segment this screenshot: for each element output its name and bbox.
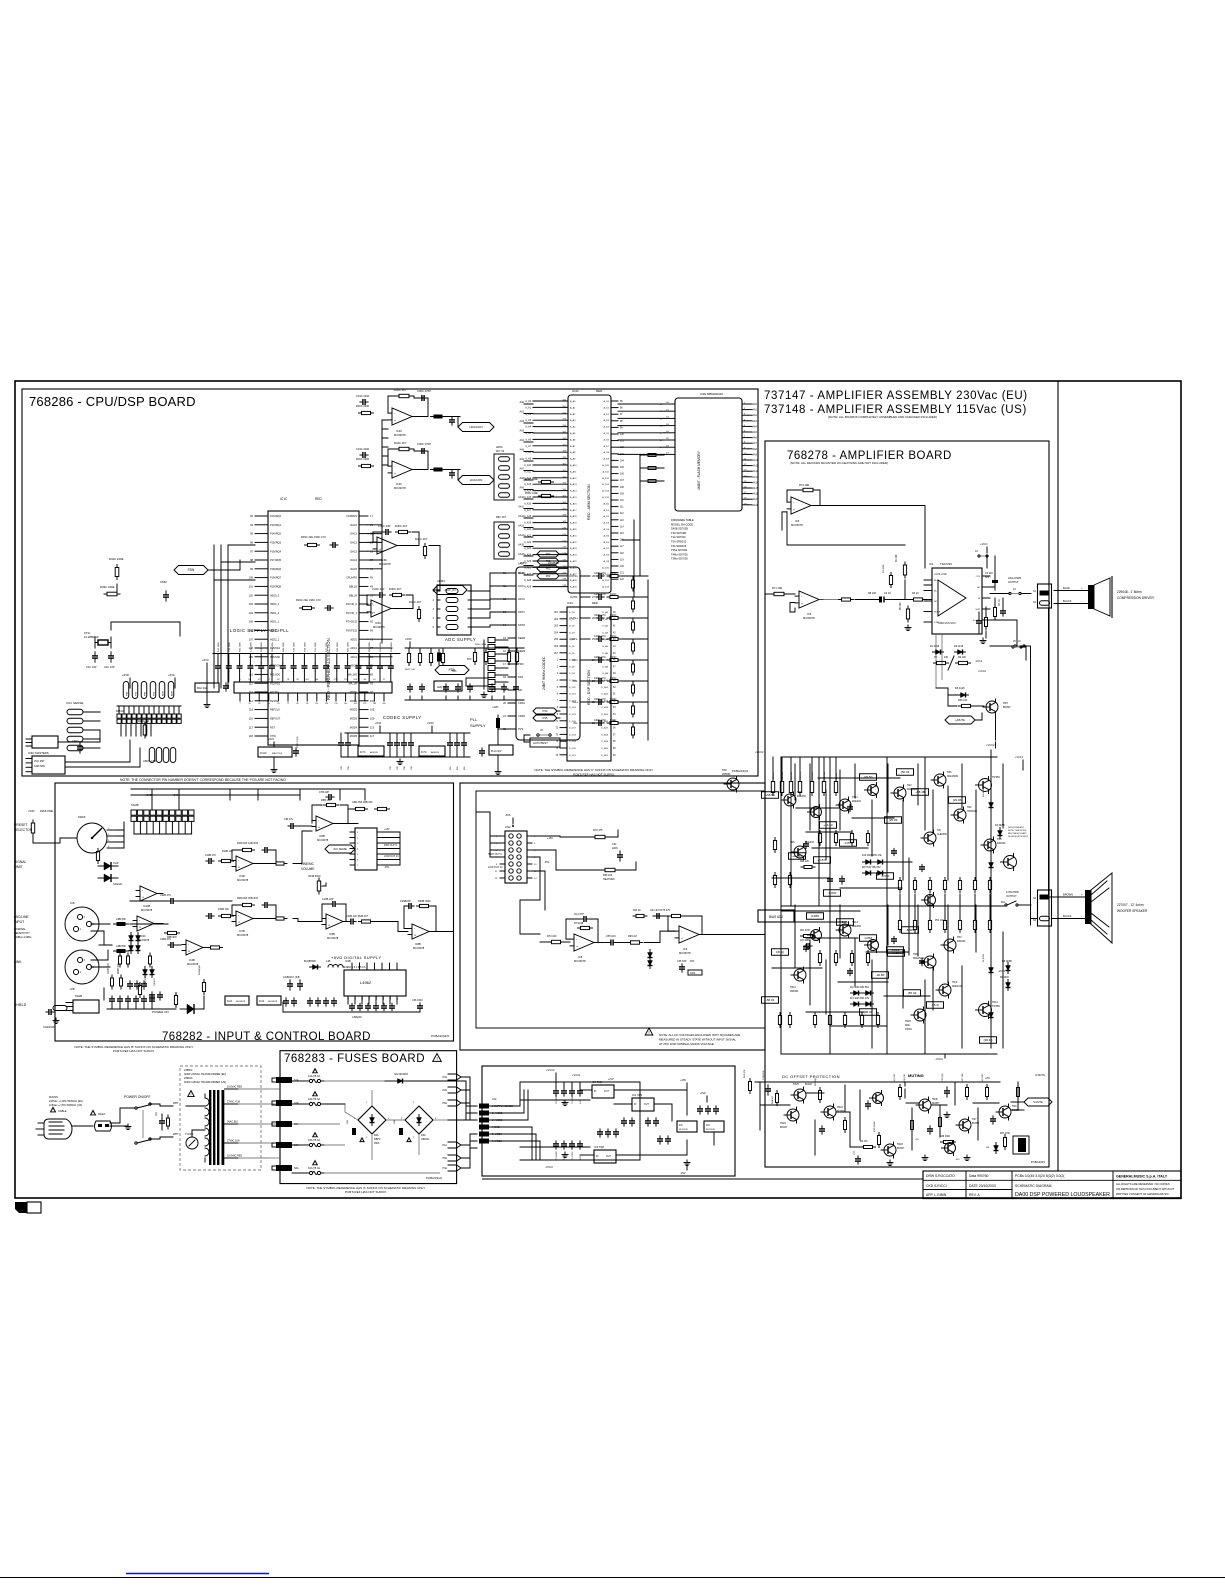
svg-text:MC33078: MC33078 [706, 1129, 716, 1131]
svg-text:MC33078: MC33078 [394, 433, 406, 437]
svg-text:PD6C 100E: PD6C 100E [525, 478, 538, 481]
transistor TR3 D34943 low [944, 939, 956, 951]
capacitor DACH1 output [449, 419, 455, 421]
svg-text:116: 116 [249, 717, 254, 721]
svg-text:-58.93: -58.93 [766, 998, 775, 1002]
codec supply caps [338, 742, 344, 744]
svg-text:VCC SENSE: VCC SENSE [333, 848, 347, 851]
svg-text:P15/IRQ3: P15/IRQ3 [270, 542, 282, 545]
svg-text:D_D18: D_D18 [569, 734, 577, 736]
svg-text:D_D21: D_D21 [569, 755, 577, 757]
flash control wires [640, 454, 664, 456]
svg-text:R49C 330E: R49C 330E [100, 585, 115, 589]
svg-text:A_A17: A_A17 [524, 509, 532, 512]
svg-text:C8.5(): C8.5() [776, 950, 784, 954]
svg-text:A_A23: A_A23 [524, 547, 532, 550]
DSP section IC3E [567, 607, 611, 761]
svg-text:768282 - INPUT & CONTROL: 768282 - INPUT & CONTROL BOARD [162, 1031, 371, 1043]
svg-text:P5A: P5A [442, 1157, 447, 1160]
svg-text:APP. L.GIBIN: APP. L.GIBIN [926, 1193, 947, 1197]
supply extra wires [520, 1099, 590, 1101]
svg-text:MAC R(2: MAC R(2 [197, 687, 207, 690]
svg-text:R5B 10K: R5B 10K [321, 799, 331, 802]
port tag pills under header [149, 748, 155, 763]
svg-text:P18/IRQ6: P18/IRQ6 [270, 568, 282, 571]
svg-text:MUST BE AT LEAST: MUST BE AT LEAST [1008, 832, 1027, 835]
svg-text:IC8B: IC8B [415, 942, 421, 946]
svg-text:MJE15031: MJE15031 [913, 957, 925, 960]
svg-text:TR2: TR2 [967, 806, 972, 809]
wires cn2 left to box edge [476, 812, 500, 836]
output stage vertical wire mesh [794, 764, 796, 800]
wires codec outputs to dac filters [622, 500, 640, 576]
transistor TR5 BC807 [986, 701, 998, 713]
dc offset extra caps [819, 1128, 825, 1130]
transistor TR19 MJE15030 low2 [939, 984, 951, 996]
svg-text:C40 100N: C40 100N [337, 642, 339, 652]
svg-text:D34943: D34943 [997, 842, 1006, 845]
svg-text:R66 1M: R66 1M [628, 935, 637, 938]
svg-text:D_D1: D_D1 [569, 619, 575, 621]
svg-text:C9 6800U: C9 6800U [556, 1150, 558, 1160]
svg-text:+5VA: +5VA [168, 673, 175, 677]
svg-text:A_A6: A_A6 [525, 438, 531, 441]
svg-text:-0.870: -0.870 [844, 841, 853, 845]
wire ADC2 loop [367, 595, 376, 605]
svg-text:AA0: AA0 [753, 403, 758, 406]
op-amp IC6B [316, 816, 333, 831]
flash right pins [742, 403, 748, 405]
svg-text:+5VD: +5VD [122, 673, 129, 677]
supply section box [482, 1066, 735, 1176]
svg-text:C29 100N: C29 100N [294, 642, 296, 652]
svg-text:R44 100N: R44 100N [283, 642, 285, 652]
svg-text:DBPC: DBPC [374, 1138, 381, 1141]
svg-text:DAC1: DAC1 [350, 533, 357, 536]
svg-text:D9 4003: D9 4003 [1000, 977, 1009, 979]
svg-text:P17/IRQ5: P17/IRQ5 [270, 559, 282, 562]
svg-text:C35 33P: C35 33P [677, 960, 687, 963]
fuse F3A [313, 1133, 318, 1137]
svg-text:NOTE: THE SYMBOL REFERENCE HAS: NOTE: THE SYMBOL REFERENCE HAS 'C' SUFFI… [534, 768, 653, 772]
svg-text:A_D4: A_D4 [604, 528, 610, 531]
svg-text:MJE340: MJE340 [852, 800, 861, 803]
svg-text:+VCC2: +VCC2 [986, 743, 995, 747]
svg-text:(NOTE: ALL BOARDS COMPLETELY A: (NOTE: ALL BOARDS COMPLETELY ASSEMBLED A… [828, 415, 937, 419]
svg-text:117: 117 [249, 725, 254, 729]
svg-text:PCBA3(0(3: PCBA3(0(3 [1031, 1160, 1046, 1164]
svg-text:GND=VC3=VCC: GND=VC3=VCC [938, 622, 956, 625]
svg-text:R6A 4(7: R6A 4(7 [771, 1095, 774, 1104]
svg-text:D_A1: D_A1 [603, 618, 609, 621]
svg-text:D_A17: D_A17 [601, 727, 608, 730]
svg-text:RST: RST [270, 726, 275, 729]
connector CN4B mid [355, 828, 377, 870]
svg-text:H0D2_1: H0D2_1 [270, 638, 280, 641]
svg-text:TR12: TR12 [790, 986, 797, 989]
svg-text:C28(000U: C28(000U [763, 1070, 765, 1080]
svg-text:C33C 100N: C33C 100N [297, 736, 299, 748]
svg-text:C56C: C56C [160, 580, 167, 584]
transistor TR4 MJE15030 [894, 787, 906, 799]
svg-text:AEM: AEM [162, 691, 165, 696]
svg-text:+: + [379, 548, 381, 552]
svg-text:ARMC: ARMC [437, 579, 445, 583]
svg-text:BLACK: BLACK [1063, 599, 1072, 603]
svg-text:A_A6: A_A6 [570, 438, 576, 441]
svg-text:+5V3: +5V3 [268, 738, 275, 741]
svg-text:A_A29: A_A29 [570, 586, 577, 589]
svg-text:A_A26: A_A26 [524, 566, 532, 569]
upper output transistor pair D34943 [984, 839, 996, 851]
svg-text:R41C 4K7: R41C 4K7 [409, 600, 422, 604]
svg-text:MOD2: MOD2 [350, 709, 358, 712]
svg-text:PCB'S REF HAS NOT SUFFIX.: PCB'S REF HAS NOT SUFFIX. [345, 1190, 387, 1194]
svg-text:AA10: AA10 [753, 459, 759, 462]
svg-text:A_A15: A_A15 [570, 496, 577, 499]
svg-text:T6A SRD033: T6A SRD033 [671, 544, 687, 548]
svg-text:DEM0: DEM0 [518, 636, 526, 640]
VCC sense pills [67, 709, 83, 715]
VCC SENSE tag input board [325, 845, 355, 853]
svg-text:TR6: TR6 [947, 771, 952, 774]
svg-text:H0D0_1: H0D0_1 [270, 603, 280, 606]
svg-text:A_A4: A_A4 [570, 426, 576, 429]
svg-text:PLLC R(2: PLLC R(2 [491, 750, 502, 753]
svg-text:AA14: AA14 [753, 481, 759, 484]
svg-text:+: + [394, 472, 396, 476]
op-amp IC1B [236, 856, 253, 871]
svg-text:10K: 10K [944, 656, 949, 659]
svg-text:C16B 22P: C16B 22P [322, 898, 334, 901]
svg-text:LINK: LINK [14, 960, 22, 964]
codec supply IC rects [358, 746, 384, 756]
svg-text:SW1B: SW1B [78, 815, 86, 819]
extra input chain parts [119, 956, 122, 964]
adc supply mid rects [434, 681, 462, 691]
PDN tag left of CPU [174, 566, 208, 575]
fuse board left contacts [276, 1077, 292, 1083]
svg-text:L3BF(5R: L3BF(5R [116, 918, 126, 921]
svg-text:NOTE: THE CONNECTOR PIN NUMBER: NOTE: THE CONNECTOR PIN NUMBER DOESN'T C… [120, 778, 286, 782]
svg-text:A_D15: A_D15 [602, 496, 609, 499]
data bus CPU to flash [618, 403, 664, 405]
svg-text:A_A19: A_A19 [570, 522, 577, 525]
svg-text:107: 107 [249, 637, 254, 641]
svg-text:B(A(B5WR: B(A(B5WR [304, 960, 316, 963]
port tag pills column [123, 682, 129, 699]
svg-text:HDACON: HDACON [469, 425, 482, 429]
svg-text:AA2: AA2 [753, 414, 758, 417]
bridge rectifier B1A [358, 1106, 386, 1134]
resistor R48 4K7 vert [773, 841, 776, 850]
transistor TR23 BC857 [824, 1106, 836, 1118]
flash memory IC2E [675, 398, 742, 511]
op-amp IC7B [236, 911, 253, 926]
XLR link output J2B [65, 950, 99, 984]
svg-text:A_A4: A_A4 [525, 426, 531, 429]
svg-text:105: 105 [370, 708, 375, 712]
wires reset to CPU [65, 740, 130, 762]
svg-text:737147 - AMPLIFIER ASSEMBLY: 737147 - AMPLIFIER ASSEMBLY 230Vac (EU) [764, 390, 1028, 402]
svg-text:AA15: AA15 [753, 487, 759, 490]
transistor TR8 MJE15031 low [924, 956, 936, 968]
svg-text:SDTO: SDTO [518, 623, 525, 627]
svg-text:D_A10: D_A10 [601, 679, 608, 682]
svg-text:D_D15: D_D15 [569, 714, 577, 716]
svg-text:CODEC SUPPLY: CODEC SUPPLY [383, 715, 422, 720]
svg-text:CN3B: CN3B [131, 803, 139, 807]
svg-text:D4A: D4A [421, 1134, 426, 1137]
svg-text:MC33078: MC33078 [237, 878, 249, 882]
svg-text:R6B 6K8: R6B 6K8 [167, 936, 177, 939]
svg-text:+5VA: +5VA [375, 721, 381, 725]
svg-text:CHASSIS: CHASSIS [43, 1025, 55, 1029]
svg-text:C17 100N: C17 100N [358, 642, 360, 652]
supply caps group1 [553, 1090, 559, 1092]
svg-text:C12 100N: C12 100N [250, 642, 252, 652]
mesh long vertical rails [818, 757, 820, 905]
svg-text:+: + [576, 945, 578, 949]
svg-text:R71 10E: R71 10E [772, 586, 782, 590]
svg-text:P54 100: P54 100 [935, 920, 944, 922]
svg-text:IC5: IC5 [795, 519, 800, 523]
svg-text:D_D2: D_D2 [569, 626, 575, 628]
svg-text:D_A4: D_A4 [603, 638, 609, 641]
svg-text:P01: P01 [546, 559, 551, 563]
svg-text:R1B 6K8 C1B 3N3: R1B 6K8 C1B 3N3 [237, 842, 258, 845]
emitter resistors mesh upper [898, 881, 901, 890]
resistor R16B 10K [222, 914, 231, 917]
svg-text:MC33078: MC33078 [237, 933, 249, 937]
svg-text:D_A20: D_A20 [601, 747, 608, 750]
svg-text:C34 100N: C34 100N [229, 642, 231, 652]
svg-text:NOMINAL: NOMINAL [14, 927, 26, 931]
svg-text:MC33078: MC33078 [394, 486, 406, 490]
svg-text:R(2 10K: R(2 10K [894, 1073, 896, 1082]
transistor ALE8030 [924, 832, 936, 844]
svg-text:LDACON: LDACON [470, 478, 483, 482]
small caps mesh [803, 843, 809, 845]
svg-text:A_A1: A_A1 [570, 406, 576, 409]
svg-text:LIMIT: LIMIT [14, 865, 23, 869]
svg-text:MOD4: MOD4 [350, 726, 358, 729]
svg-text:A_A26: A_A26 [570, 566, 577, 569]
svg-text:(7B 47U: (7B 47U [154, 978, 156, 986]
svg-text:AR5C: AR5C [496, 446, 503, 449]
transformer secondary taps [225, 1088, 239, 1090]
svg-text:AA18: AA18 [753, 504, 759, 507]
svg-text:!: ! [648, 1030, 649, 1035]
voltage box -0.864 [860, 935, 877, 942]
inlet connector [95, 1121, 112, 1131]
wire crystal to CPU [111, 622, 180, 636]
svg-text:RED: RED [596, 389, 603, 393]
wire IC8B out to edge [433, 931, 453, 933]
wire high out return verticals [1030, 647, 1032, 925]
mid rails output stage [781, 905, 1006, 907]
svg-text:+: + [681, 937, 683, 941]
svg-text:P6A: P6A [442, 1102, 447, 1105]
wires xlr to filters [91, 923, 110, 925]
HDACON tag [458, 423, 494, 432]
svg-text:A_A16: A_A16 [570, 502, 577, 505]
svg-text:M(6 (0K: M(6 (0K [904, 1074, 906, 1082]
svg-text:+: + [373, 611, 375, 615]
svg-text:A_D5: A_D5 [604, 432, 610, 435]
svg-text:OUT: OUT [604, 1091, 609, 1093]
svg-text:DAC5: DAC5 [350, 568, 357, 571]
svg-text:229048 - 1' 8ohm: 229048 - 1' 8ohm [1117, 590, 1142, 594]
svg-text:+8VA: +8VA [700, 1092, 706, 1095]
pll bead [496, 718, 500, 728]
svg-text:A_A20: A_A20 [524, 528, 532, 531]
warning triangle fuses title [433, 1054, 442, 1062]
svg-text:P13/IRQ2: P13/IRQ2 [270, 515, 282, 518]
svg-text:A_A18: A_A18 [570, 515, 577, 518]
svg-text:C(5B 47U: C(5B 47U [145, 976, 147, 986]
svg-text:D_D14: D_D14 [569, 707, 577, 709]
svg-text:118: 118 [249, 734, 254, 738]
CPU IC1C right pins [359, 515, 368, 517]
svg-text:MC33078: MC33078 [187, 962, 199, 966]
svg-text:L4962A#: L4962A# [352, 1016, 362, 1019]
svg-text:+(5V: +(5V [985, 1078, 990, 1080]
svg-text:D_A5: D_A5 [603, 645, 609, 648]
svg-text:27VAC JLW: 27VAC JLW [227, 1140, 240, 1143]
svg-text:P19/IRQ7: P19/IRQ7 [270, 577, 282, 580]
voltage box -8.303 [902, 927, 919, 934]
svg-text:C(B 47U: C(B 47U [284, 818, 293, 821]
svg-text:MB3771(6: MB3771(6 [272, 753, 283, 755]
svg-text:AA13: AA13 [753, 476, 759, 479]
svg-text:53.6VAC RED: 53.6VAC RED [227, 1155, 242, 1158]
svg-text:D4 4008: D4 4008 [983, 788, 985, 797]
svg-text:IC8: IC8 [578, 955, 583, 959]
svg-text:D8 FE5B: D8 FE5B [1002, 960, 1012, 963]
transistor TIP36C top [979, 779, 992, 792]
svg-text:CK256FS: CK256FS [346, 515, 357, 518]
svg-text:IC9: IC9 [683, 947, 688, 951]
svg-text:A_A1: A_A1 [525, 406, 531, 409]
svg-text:(29.96: (29.96 [953, 798, 962, 802]
capacitor C1A bridge1 [352, 1128, 356, 1135]
svg-text:P4A: P4A [442, 1167, 447, 1170]
svg-text:J1B: J1B [70, 901, 75, 905]
svg-text:RED - ARM SECTION: RED - ARM SECTION [587, 484, 591, 520]
svg-text:ADC0: ADC0 [350, 638, 357, 641]
supply bottom rail to title block [482, 1178, 923, 1180]
svg-text:R12 100N: R12 100N [218, 642, 220, 652]
flash left pins [664, 403, 675, 405]
capacitor C33C [293, 750, 299, 752]
transistor TR25 BC847 [794, 1089, 806, 1101]
svg-text:IC4B: IC4B [189, 958, 195, 962]
svg-text:113: 113 [370, 725, 375, 729]
mid resistors row [211, 946, 220, 949]
svg-text:IN-: IN- [934, 591, 937, 593]
svg-text:D_D12: D_D12 [569, 694, 577, 696]
svg-text:INLET: INLET [98, 1112, 106, 1116]
svg-text:OR REPRODUCE THIS DOCUMENT WIT: OR REPRODUCE THIS DOCUMENT WITHOUT [1116, 1187, 1175, 1191]
svg-text:MJE15031: MJE15031 [947, 775, 959, 778]
svg-text:A_D13: A_D13 [602, 586, 609, 589]
svg-text:IC30: IC30 [140, 934, 146, 938]
svg-text:D_D3: D_D3 [569, 632, 575, 634]
svg-text:+58.4B: +58.4B [915, 790, 925, 794]
svg-text:R45C 4K7: R45C 4K7 [395, 524, 408, 528]
svg-text:!: ! [436, 1056, 437, 1062]
svg-text:SELECTOR: SELECTOR [14, 828, 33, 832]
svg-text:LOW OUT 13: LOW OUT 13 [488, 866, 503, 869]
svg-text:MJE0316: MJE0316 [952, 985, 963, 988]
svg-text:MIC/LINE: MIC/LINE [14, 915, 29, 919]
svg-text:MOD5: MOD5 [350, 735, 358, 738]
svg-text:A_D10: A_D10 [602, 566, 609, 569]
svg-text:MC33078: MC33078 [268, 1001, 278, 1003]
svg-text:R70 475: R70 475 [593, 829, 603, 832]
wires bottom input board [107, 1008, 176, 1010]
svg-text:R10B 10K: R10B 10K [222, 850, 233, 853]
svg-text:PCBA3(3)2(: PCBA3(3)2( [426, 1176, 442, 1180]
svg-text:PVS: PVS [518, 727, 523, 731]
ARM IC left pins and bus [533, 400, 568, 402]
input board top rails [131, 788, 365, 790]
svg-text:MC33078: MC33078 [413, 946, 425, 950]
svg-text:D(5 H(4V R5( 8K2: D(5 H(4V R5( 8K2 [862, 867, 881, 869]
voltage box +29.50 [860, 774, 877, 781]
svg-text:GLUED(6 WITH H(1(V: GLUED(6 WITH H(1(V [1008, 836, 1029, 838]
svg-text:53.6VAC RED: 53.6VAC RED [227, 1086, 242, 1089]
svg-text:AK4528: AK4528 [431, 751, 440, 754]
svg-text:D_D11: D_D11 [569, 687, 576, 689]
extra transistors output mesh [868, 785, 879, 796]
mains plug [44, 1119, 72, 1139]
capacitor C2A bridge2 [399, 1128, 403, 1135]
svg-text:COMPRESSION DRIVER: COMPRESSION DRIVER [1117, 596, 1155, 600]
svg-text:(3(B: (3(B [295, 976, 300, 979]
svg-text:A_D2: A_D2 [604, 515, 610, 518]
svg-text:BIAS ADJ: BIAS ADJ [769, 915, 783, 919]
wires to line/mc volume [293, 831, 312, 864]
title block frame [923, 1171, 1181, 1199]
svg-text:BLUE: BLUE [1063, 586, 1070, 590]
svg-text:TR5: TR5 [1003, 702, 1008, 705]
svg-text:PSVTS32: PSVTS32 [346, 630, 358, 633]
svg-text:239810: 239810 [184, 1077, 193, 1080]
svg-text:CKD S.RICCI: CKD S.RICCI [926, 1184, 947, 1188]
svg-text:A_D12: A_D12 [602, 477, 609, 480]
svg-text:768283 - FUSES BOARD: 768283 - FUSES BOARD [284, 1053, 425, 1065]
diodes preamp [648, 953, 653, 958]
svg-text:ALL RIGHTS ARE RESERVED. NO CO: ALL RIGHTS ARE RESERVED. NO COPIES [1116, 1182, 1170, 1186]
svg-text:OUT: OUT [606, 1156, 611, 1158]
svg-text:D_D9: D_D9 [569, 673, 575, 675]
svg-text:D_A0: D_A0 [603, 611, 609, 614]
svg-text:TR9: TR9 [1012, 1105, 1017, 1108]
wire DACH1 feedback loop [388, 396, 399, 413]
svg-text:DR EQUIVALENT: DR EQUIVALENT [1008, 826, 1025, 829]
svg-text:A_D3: A_D3 [604, 419, 610, 422]
svg-text:MJE: MJE [905, 1024, 910, 1027]
ferrite bead L1C [437, 653, 441, 662]
voltage box +0.877 [814, 857, 831, 864]
svg-text:C55 10U: C55 10U [606, 935, 616, 938]
reset block second rect [32, 736, 58, 748]
relay coil muting [1018, 1138, 1026, 1152]
svg-text:C33 (2(U: C33 (2(U [942, 1073, 944, 1082]
svg-text:ADM: ADM [171, 691, 174, 696]
